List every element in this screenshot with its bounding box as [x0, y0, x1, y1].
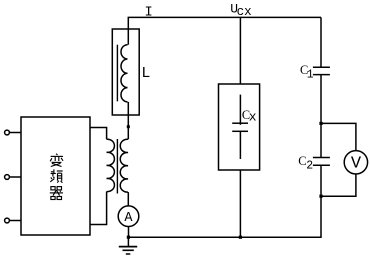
label 频	[50, 169, 62, 182]
terminal 1	[5, 130, 10, 135]
wire terminal 3	[9, 220, 21, 222]
wire ammeter to ground node	[128, 227, 130, 238]
wire voltmeter branch top	[321, 123, 356, 150]
capacitor Cx top lead	[239, 95, 241, 125]
capacitor Cx bottom lead	[239, 131, 241, 159]
wire voltmeter branch bottom	[321, 174, 356, 196]
wire C2 to lower node	[320, 165, 322, 196]
wire Cx branch from top rail	[239, 17, 241, 84]
wire L coil to transformer secondary	[127, 102, 129, 139]
inductor L coil	[121, 45, 128, 102]
wire top rail	[128, 16, 321, 18]
terminal 2	[5, 175, 10, 180]
wire secondary to ammeter	[127, 192, 129, 206]
svg-text:cx: cx	[237, 5, 252, 19]
svg-text:x: x	[249, 110, 257, 125]
wire L branch from top rail	[127, 17, 129, 44]
transformer T1 core	[116, 139, 118, 194]
terminal 3	[5, 218, 10, 223]
frequency converter box 变频器	[21, 117, 90, 235]
transformer T1 primary winding	[107, 139, 115, 191]
capacitor C1	[313, 66, 330, 68]
junction dot Cx-rail	[239, 236, 242, 239]
inductor L core bar	[116, 45, 118, 102]
ground	[127, 237, 129, 246]
junction dot lower node	[319, 195, 322, 198]
capacitor C2	[313, 157, 330, 159]
polarity dot	[127, 125, 130, 128]
transformer T1 primary top lead	[90, 128, 107, 140]
svg-text:L: L	[141, 65, 150, 82]
wire right branch upper	[320, 17, 322, 67]
svg-text:I: I	[145, 5, 153, 20]
label 器	[50, 187, 63, 200]
wire terminal 2	[9, 176, 21, 178]
wire lower node to bottom rail	[320, 196, 322, 237]
svg-text:V: V	[351, 155, 362, 174]
svg-text:2: 2	[306, 159, 313, 172]
transformer T1 primary bottom lead	[90, 192, 107, 225]
capacitor Cx plates	[232, 122, 248, 124]
junction dot upper node	[319, 122, 322, 125]
junction dot ground node	[127, 236, 130, 239]
svg-text:A: A	[124, 211, 133, 226]
svg-text:1: 1	[307, 69, 314, 82]
wire Cx box to bottom rail	[239, 170, 241, 237]
wire C1 to upper node	[320, 75, 322, 124]
wire bottom rail	[128, 236, 321, 238]
inductor L box	[112, 29, 139, 115]
voltmeter V	[344, 151, 367, 174]
label 变	[50, 154, 63, 167]
wire upper node to C2	[320, 123, 322, 157]
transformer T1 secondary winding	[120, 139, 128, 192]
capacitor Cx shield box	[219, 84, 260, 170]
wire terminal 1	[9, 132, 21, 134]
ammeter A	[118, 206, 139, 227]
